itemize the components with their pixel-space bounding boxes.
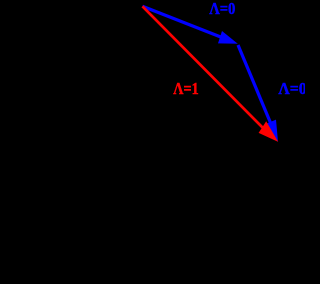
wire: blue vector 1 shaft (node S to node M)	[142, 6, 222, 37]
svg-text:Λ=0: Λ=0	[209, 0, 235, 18]
red arrowhead at node E	[259, 121, 279, 142]
blue arrowhead 2 at node E	[265, 120, 278, 142]
svg-text:Λ=1: Λ=1	[173, 79, 198, 98]
wire: red vector shaft (direct path, node S to node E)	[142, 6, 263, 128]
svg-text:Λ=0: Λ=0	[278, 79, 305, 98]
blue arrowhead 1 at node M	[218, 31, 238, 44]
wire: blue vector 2 shaft (node M to node E)	[238, 45, 271, 124]
